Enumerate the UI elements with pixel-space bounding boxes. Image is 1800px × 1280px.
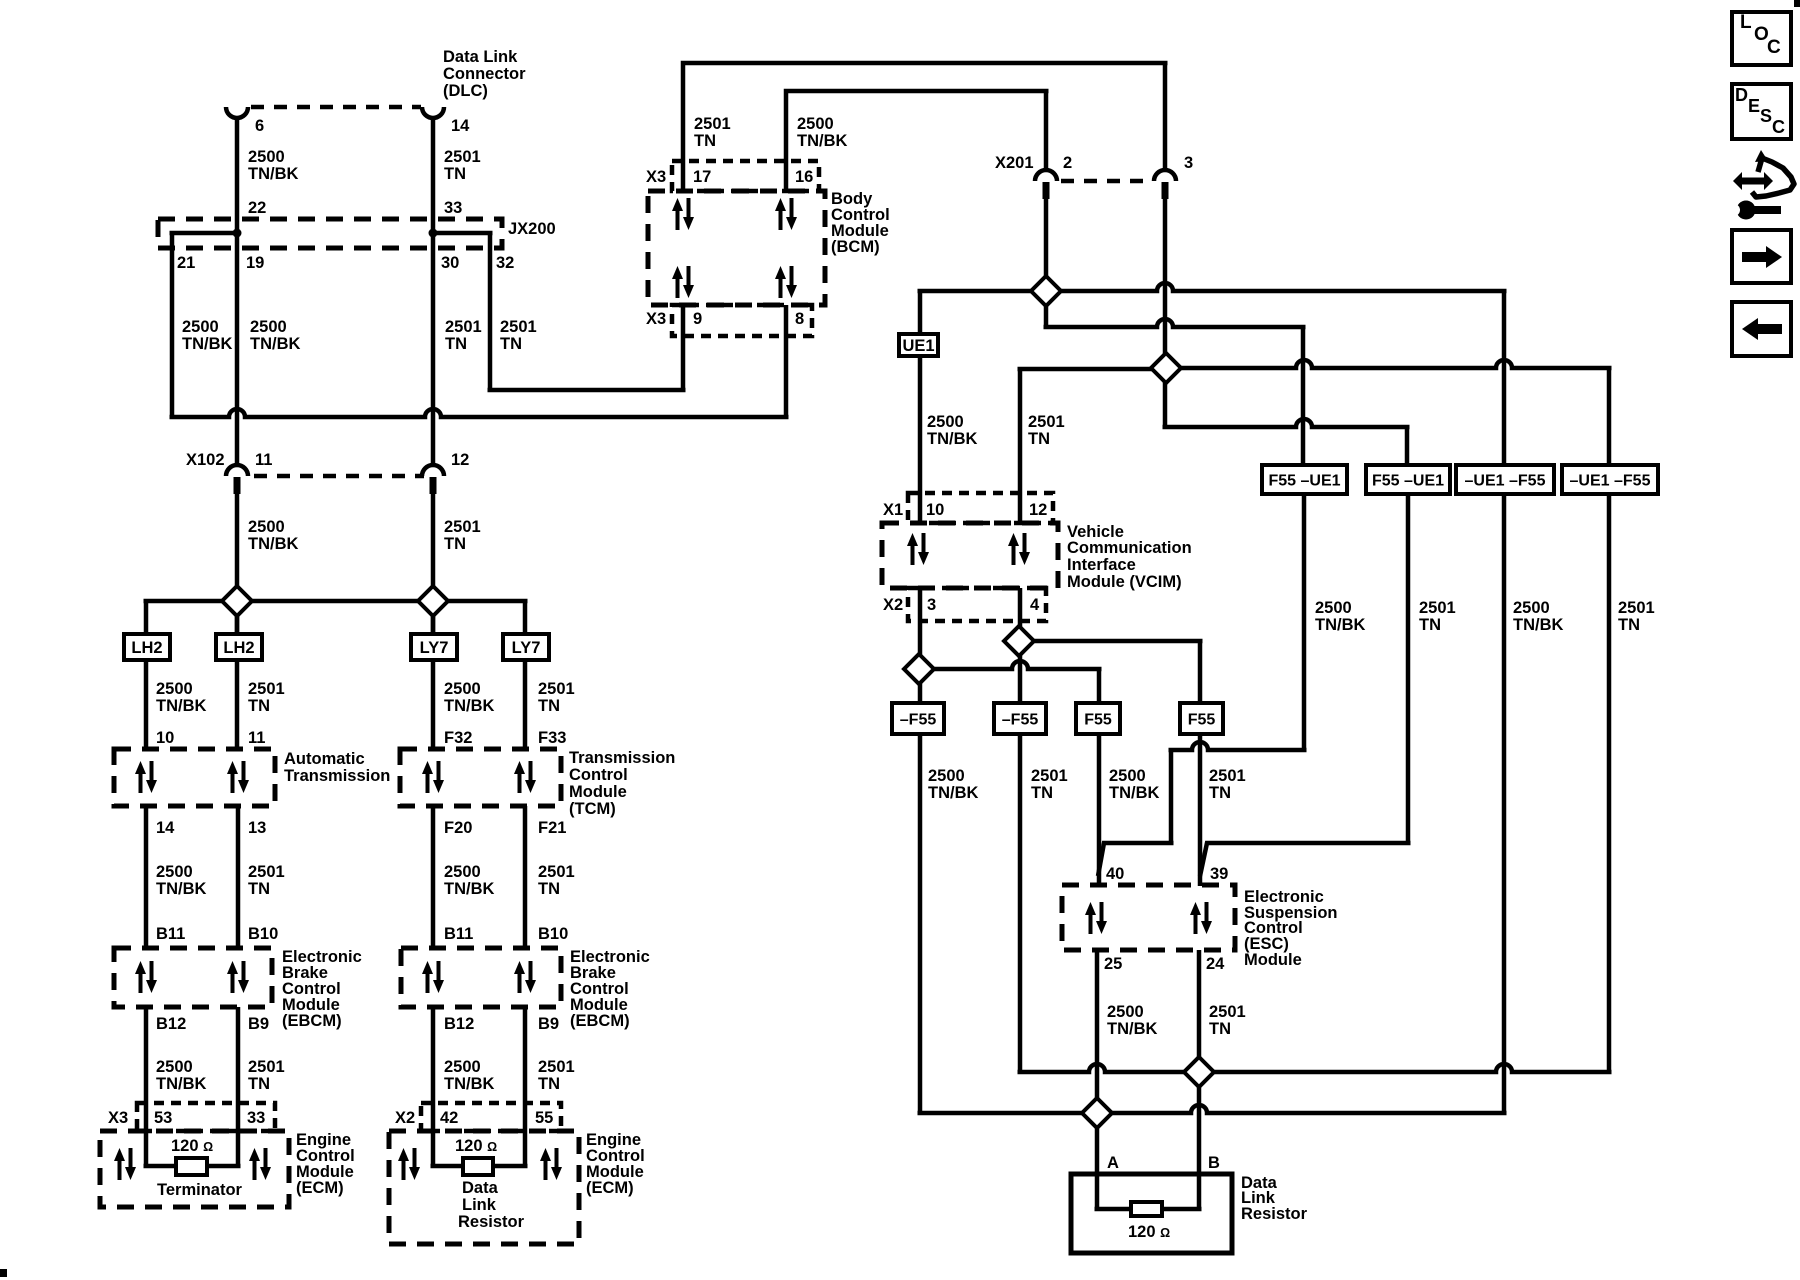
svg-text:TN/BK: TN/BK	[444, 1075, 494, 1093]
svg-text:TN/BK: TN/BK	[248, 165, 298, 183]
svg-text:2500: 2500	[156, 680, 193, 698]
svg-text:TN/BK: TN/BK	[1109, 784, 1159, 802]
svg-text:TN/BK: TN/BK	[182, 335, 232, 353]
svg-text:Link: Link	[462, 1196, 497, 1214]
svg-text:2501: 2501	[248, 1058, 285, 1076]
svg-text:2500: 2500	[248, 148, 285, 166]
svg-text:F55: F55	[1188, 712, 1216, 729]
svg-text:3: 3	[1184, 154, 1193, 172]
svg-text:X2: X2	[395, 1109, 415, 1127]
svg-text:F55 –UE1: F55 –UE1	[1268, 473, 1340, 490]
svg-text:32: 32	[496, 254, 514, 272]
svg-text:TN: TN	[500, 335, 522, 353]
svg-text:TN: TN	[1209, 784, 1231, 802]
svg-text:–F55: –F55	[900, 712, 937, 729]
svg-text:6: 6	[255, 117, 264, 135]
svg-text:Communication: Communication	[1067, 539, 1192, 557]
svg-text:12: 12	[451, 451, 469, 469]
svg-text:11: 11	[248, 729, 265, 747]
svg-text:TN: TN	[248, 880, 270, 898]
svg-text:X2: X2	[883, 596, 903, 614]
svg-text:X1: X1	[883, 501, 903, 519]
svg-text:Data: Data	[462, 1179, 499, 1197]
svg-text:10: 10	[156, 729, 174, 747]
svg-text:Terminator: Terminator	[157, 1181, 243, 1199]
svg-text:A: A	[1107, 1154, 1119, 1172]
svg-text:22: 22	[248, 199, 266, 217]
svg-text:LH2: LH2	[131, 639, 162, 657]
svg-text:TN/BK: TN/BK	[444, 880, 494, 898]
svg-text:B: B	[1208, 1154, 1220, 1172]
svg-text:2501: 2501	[1209, 767, 1246, 785]
svg-text:B11: B11	[156, 925, 185, 943]
svg-text:B11: B11	[444, 925, 473, 943]
svg-text:B10: B10	[248, 925, 278, 943]
svg-text:F55 –UE1: F55 –UE1	[1372, 473, 1444, 490]
svg-text:TN/BK: TN/BK	[156, 697, 206, 715]
svg-text:11: 11	[255, 451, 272, 469]
svg-text:B12: B12	[156, 1015, 186, 1033]
svg-text:13: 13	[248, 819, 266, 837]
svg-text:2501: 2501	[444, 148, 481, 166]
svg-text:2500: 2500	[248, 518, 285, 536]
svg-text:2501: 2501	[1419, 599, 1456, 617]
svg-text:33: 33	[444, 199, 462, 217]
svg-text:TN: TN	[1031, 784, 1053, 802]
svg-text:TN: TN	[538, 1075, 560, 1093]
svg-text:(ECM): (ECM)	[586, 1179, 634, 1197]
svg-text:F33: F33	[538, 729, 566, 747]
svg-text:Control: Control	[569, 766, 628, 784]
svg-text:Resistor: Resistor	[1241, 1205, 1308, 1223]
svg-text:TN/BK: TN/BK	[797, 132, 847, 150]
svg-text:24: 24	[1206, 955, 1225, 973]
svg-text:Automatic: Automatic	[284, 750, 365, 768]
svg-text:X102: X102	[186, 451, 225, 469]
svg-text:40: 40	[1106, 865, 1124, 883]
svg-text:Connector: Connector	[443, 65, 526, 83]
svg-text:F20: F20	[444, 819, 472, 837]
svg-text:33: 33	[247, 1109, 265, 1127]
svg-text:2500: 2500	[444, 680, 481, 698]
svg-text:2500: 2500	[444, 863, 481, 881]
svg-text:X3: X3	[646, 310, 666, 328]
svg-text:120 Ω: 120 Ω	[171, 1137, 213, 1155]
svg-text:Module: Module	[569, 783, 627, 801]
svg-text:(EBCM): (EBCM)	[282, 1012, 342, 1030]
svg-text:Transmission: Transmission	[569, 749, 675, 767]
svg-text:120 Ω: 120 Ω	[1128, 1223, 1170, 1241]
svg-text:TN/BK: TN/BK	[1315, 616, 1365, 634]
svg-text:2501: 2501	[1031, 767, 1068, 785]
svg-text:TN: TN	[1419, 616, 1441, 634]
svg-text:2500: 2500	[797, 115, 834, 133]
svg-text:UE1: UE1	[902, 337, 934, 355]
svg-text:(TCM): (TCM)	[569, 800, 616, 818]
svg-text:2500: 2500	[444, 1058, 481, 1076]
svg-text:120 Ω: 120 Ω	[455, 1137, 497, 1155]
svg-text:25: 25	[1104, 955, 1122, 973]
svg-text:2501: 2501	[538, 1058, 575, 1076]
svg-text:2500: 2500	[1513, 599, 1550, 617]
svg-text:30: 30	[441, 254, 459, 272]
svg-text:X201: X201	[995, 154, 1034, 172]
svg-text:TN: TN	[444, 165, 466, 183]
svg-text:2500: 2500	[927, 413, 964, 431]
svg-text:TN: TN	[445, 335, 467, 353]
svg-text:3: 3	[927, 596, 936, 614]
svg-text:42: 42	[440, 1109, 458, 1127]
svg-text:X3: X3	[108, 1109, 128, 1127]
svg-text:TN/BK: TN/BK	[248, 535, 298, 553]
svg-text:Module (VCIM): Module (VCIM)	[1067, 573, 1182, 591]
svg-text:E: E	[1748, 96, 1760, 116]
svg-text:2500: 2500	[156, 863, 193, 881]
svg-text:LY7: LY7	[420, 639, 449, 657]
svg-text:2501: 2501	[1028, 413, 1065, 431]
svg-text:TN/BK: TN/BK	[156, 1075, 206, 1093]
svg-text:F21: F21	[538, 819, 566, 837]
svg-text:B9: B9	[538, 1015, 559, 1033]
svg-text:2500: 2500	[250, 318, 287, 336]
svg-text:(BCM): (BCM)	[831, 238, 880, 256]
svg-text:L: L	[1740, 12, 1752, 33]
svg-text:D: D	[1735, 85, 1748, 105]
svg-text:TN/BK: TN/BK	[156, 880, 206, 898]
svg-text:2500: 2500	[928, 767, 965, 785]
svg-text:S: S	[1760, 106, 1772, 126]
svg-text:Data Link: Data Link	[443, 48, 518, 66]
svg-text:2501: 2501	[445, 318, 482, 336]
svg-text:55: 55	[535, 1109, 553, 1127]
svg-text:Interface: Interface	[1067, 556, 1136, 574]
svg-text:TN: TN	[538, 880, 560, 898]
svg-text:TN: TN	[1028, 430, 1050, 448]
svg-text:TN/BK: TN/BK	[928, 784, 978, 802]
svg-text:C: C	[1772, 117, 1785, 137]
svg-text:F55: F55	[1084, 712, 1112, 729]
svg-text:4: 4	[1030, 596, 1040, 614]
svg-text:2500: 2500	[182, 318, 219, 336]
svg-text:–UE1 –F55: –UE1 –F55	[1465, 473, 1546, 490]
svg-text:TN/BK: TN/BK	[1107, 1020, 1157, 1038]
svg-text:9: 9	[693, 310, 702, 328]
svg-text:LY7: LY7	[512, 639, 541, 657]
svg-text:B10: B10	[538, 925, 568, 943]
svg-text:–F55: –F55	[1002, 712, 1039, 729]
svg-text:–UE1 –F55: –UE1 –F55	[1570, 473, 1651, 490]
svg-text:2500: 2500	[156, 1058, 193, 1076]
svg-text:TN/BK: TN/BK	[444, 697, 494, 715]
svg-text:TN: TN	[538, 697, 560, 715]
svg-text:Transmission: Transmission	[284, 767, 390, 785]
svg-text:2501: 2501	[538, 863, 575, 881]
svg-text:(EBCM): (EBCM)	[570, 1012, 630, 1030]
svg-text:2501: 2501	[500, 318, 537, 336]
svg-text:TN/BK: TN/BK	[1513, 616, 1563, 634]
svg-text:39: 39	[1210, 865, 1228, 883]
svg-text:TN/BK: TN/BK	[250, 335, 300, 353]
svg-text:LH2: LH2	[223, 639, 254, 657]
svg-text:TN: TN	[444, 535, 466, 553]
svg-text:B12: B12	[444, 1015, 474, 1033]
svg-text:TN: TN	[248, 697, 270, 715]
svg-text:B9: B9	[248, 1015, 269, 1033]
svg-text:TN: TN	[1209, 1020, 1231, 1038]
svg-text:TN: TN	[248, 1075, 270, 1093]
svg-text:C: C	[1767, 37, 1781, 58]
svg-text:2501: 2501	[1618, 599, 1655, 617]
svg-text:2500: 2500	[1315, 599, 1352, 617]
svg-text:53: 53	[154, 1109, 172, 1127]
svg-text:(DLC): (DLC)	[443, 82, 488, 100]
svg-text:TN: TN	[1618, 616, 1640, 634]
svg-text:10: 10	[926, 501, 944, 519]
svg-text:2501: 2501	[538, 680, 575, 698]
svg-text:2501: 2501	[444, 518, 481, 536]
svg-text:(ECM): (ECM)	[296, 1179, 344, 1197]
svg-text:F32: F32	[444, 729, 472, 747]
svg-text:2: 2	[1063, 154, 1072, 172]
svg-text:X3: X3	[646, 168, 666, 186]
svg-text:TN: TN	[694, 132, 716, 150]
svg-text:2501: 2501	[248, 680, 285, 698]
svg-text:14: 14	[156, 819, 175, 837]
svg-text:8: 8	[795, 310, 804, 328]
svg-text:2501: 2501	[694, 115, 731, 133]
svg-text:12: 12	[1029, 501, 1047, 519]
svg-text:19: 19	[246, 254, 264, 272]
svg-text:2501: 2501	[1209, 1003, 1246, 1021]
svg-text:14: 14	[451, 117, 470, 135]
svg-text:JX200: JX200	[508, 220, 556, 238]
svg-text:2501: 2501	[248, 863, 285, 881]
svg-text:TN/BK: TN/BK	[927, 430, 977, 448]
svg-text:2500: 2500	[1107, 1003, 1144, 1021]
svg-text:16: 16	[795, 168, 813, 186]
svg-text:21: 21	[177, 254, 195, 272]
svg-text:Module: Module	[1244, 951, 1302, 969]
svg-text:Resistor: Resistor	[458, 1213, 525, 1231]
svg-text:17: 17	[693, 168, 711, 186]
svg-text:2500: 2500	[1109, 767, 1146, 785]
